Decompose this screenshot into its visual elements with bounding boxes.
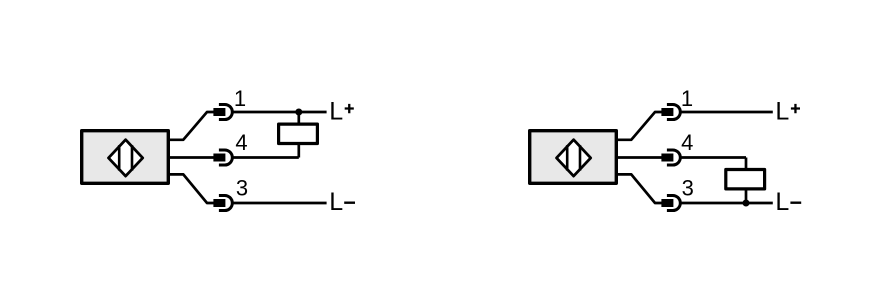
svg-text:L: L [329, 188, 343, 216]
wire pin 1 to L+ (right) [679, 111, 773, 114]
socket pin 4 [219, 150, 232, 165]
pin 3 contact (right) [661, 199, 673, 207]
sensor symbol diamond [109, 140, 143, 176]
wire load bottom to pin 4 wire [297, 144, 300, 158]
pin 4 contact (right) [661, 154, 673, 162]
wire sensor to pin 1 (right) [616, 112, 662, 140]
svg-text:4: 4 [235, 130, 247, 155]
socket pin 4 (right) [667, 150, 680, 165]
svg-text:L: L [775, 188, 789, 216]
wire sensor to pin 3 [168, 174, 214, 203]
wire pin 4 horizontal [231, 156, 299, 159]
wire sensor to pin 3 (right) [616, 174, 662, 203]
wire pin 3 to L- (right) [679, 202, 773, 205]
plus sign of L+ (right) [791, 104, 800, 113]
junction node on L- wire (right) [743, 200, 750, 207]
wire pin 1 to L+ [231, 111, 327, 114]
sensor symbol vertical line left [118, 145, 121, 170]
load resistor (right) [726, 170, 765, 189]
socket pin 1 [219, 104, 232, 119]
svg-text:3: 3 [236, 176, 248, 201]
svg-text:L: L [775, 98, 789, 126]
wire sensor to pin 1 [168, 112, 214, 140]
sensor symbol vertical line right [131, 145, 134, 170]
wire pin 4 horizontal (right) [679, 156, 746, 159]
sensor symbol vertical line right (right) [579, 145, 582, 170]
pin 1 contact (right) [661, 108, 673, 116]
plus sign of L+ (left) [345, 104, 354, 113]
wire sensor to pin 4 [168, 156, 214, 159]
wire load bottom to junction (right) [745, 189, 748, 203]
sensor body S2 [530, 131, 617, 184]
pin 1 contact [213, 108, 225, 116]
wire junction to load top [297, 112, 300, 124]
svg-text:3: 3 [682, 176, 694, 201]
load resistor (left) [279, 124, 318, 143]
sensor body S1 [82, 131, 169, 184]
pin 3 contact [213, 199, 225, 207]
minus sign of L- (left) [344, 201, 355, 203]
socket pin 3 [219, 195, 232, 210]
wire pin 3 to L- [231, 202, 327, 205]
svg-text:1: 1 [681, 86, 693, 111]
sensor symbol vertical line left (right) [566, 145, 569, 170]
svg-text:L: L [329, 98, 343, 126]
svg-text:4: 4 [681, 130, 693, 155]
minus sign of L- (right) [790, 201, 801, 203]
svg-text:1: 1 [234, 86, 246, 111]
socket pin 3 (right) [667, 195, 680, 210]
wire pin 4 down to load top (right) [745, 158, 748, 170]
sensor symbol diamond (right) [557, 140, 591, 176]
junction node on L+ wire [295, 109, 302, 116]
pin 4 contact [213, 154, 225, 162]
socket pin 1 (right) [667, 104, 680, 119]
wire sensor to pin 4 (right) [616, 156, 662, 159]
